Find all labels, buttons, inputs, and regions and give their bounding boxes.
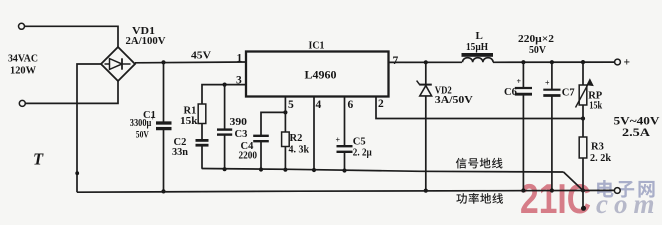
input terminal bottom bbox=[19, 100, 25, 106]
node C6 bottom junction bbox=[521, 188, 525, 192]
wire top AC input bbox=[25, 26, 119, 47]
svg-text:15k: 15k bbox=[180, 116, 198, 127]
svg-text:T: T bbox=[33, 150, 44, 169]
wire bridge output to IC pin1 bbox=[135, 61, 246, 64]
resistor R1 bbox=[198, 104, 206, 124]
node C3 bottom junction bbox=[223, 167, 227, 171]
capacitor C7 bbox=[551, 62, 553, 89]
svg-text:2. 2µ: 2. 2µ bbox=[353, 147, 372, 158]
svg-text:1: 1 bbox=[237, 53, 243, 65]
diode VD2 bbox=[425, 62, 427, 84]
inductor L bbox=[462, 53, 494, 57]
wire signal ground rail bbox=[202, 169, 564, 173]
capacitor C3 bbox=[224, 85, 226, 129]
svg-text:C3: C3 bbox=[235, 129, 248, 140]
capacitor C2 bbox=[196, 139, 209, 142]
node C4 bottom junction bbox=[259, 167, 263, 171]
wire pin6 down bbox=[344, 97, 346, 146]
node VD2 junction bbox=[424, 60, 428, 64]
node pin4 ground junction bbox=[312, 168, 316, 172]
svg-text:C5: C5 bbox=[353, 136, 366, 147]
node pin3/C3 junction bbox=[223, 83, 227, 87]
svg-text:L4960: L4960 bbox=[305, 69, 337, 81]
input terminal top bbox=[19, 23, 25, 29]
op-amp U1 regulator IC1 L4960 box bbox=[246, 52, 389, 97]
svg-text:2: 2 bbox=[378, 98, 384, 110]
svg-text:3A/50V: 3A/50V bbox=[435, 95, 473, 106]
svg-text:2A/100V: 2A/100V bbox=[126, 36, 166, 47]
wire pin2 feedback to divider bbox=[376, 97, 583, 119]
wire power ground rail bbox=[77, 190, 614, 192]
wire bridge negative to ground rail bbox=[77, 64, 101, 192]
output terminal + bbox=[615, 59, 621, 65]
potentiometer RP bbox=[582, 62, 584, 85]
svg-text:com: com bbox=[596, 189, 661, 219]
wire pin7 to inductor bbox=[389, 61, 463, 63]
node C1 top junction bbox=[161, 60, 165, 64]
svg-text:34VAC: 34VAC bbox=[8, 53, 38, 65]
svg-text:C6: C6 bbox=[504, 87, 517, 98]
svg-text:+: + bbox=[335, 136, 340, 145]
svg-text:2. 2k: 2. 2k bbox=[590, 153, 611, 164]
svg-text:L: L bbox=[476, 30, 483, 42]
svg-text:2.5A: 2.5A bbox=[622, 125, 650, 139]
wire C2 to signal ground bbox=[201, 146, 203, 169]
svg-text:R1: R1 bbox=[184, 106, 197, 117]
capacitor C6 bbox=[522, 62, 524, 87]
resistor R3 bbox=[582, 119, 584, 138]
svg-text:15k: 15k bbox=[589, 100, 602, 111]
wire R1 to C2 bbox=[201, 124, 203, 140]
svg-text:R2: R2 bbox=[290, 133, 303, 144]
svg-text:R3: R3 bbox=[591, 141, 604, 152]
svg-text:7: 7 bbox=[393, 55, 399, 67]
wire pin4 to signal ground bbox=[313, 97, 315, 171]
svg-text:390: 390 bbox=[230, 116, 248, 128]
wire pin3 to R1 bbox=[202, 85, 246, 104]
svg-text:45V: 45V bbox=[191, 50, 211, 62]
svg-text:2200: 2200 bbox=[239, 151, 258, 162]
svg-text:15µH: 15µH bbox=[466, 42, 488, 53]
node pin6 ground junction bbox=[342, 168, 346, 172]
svg-text:5: 5 bbox=[288, 99, 294, 111]
svg-text:+: + bbox=[516, 77, 521, 86]
wire bottom AC input bbox=[25, 81, 118, 103]
capacitor C5 bbox=[337, 145, 353, 147]
node feedback junction bbox=[581, 116, 585, 120]
svg-text:4. 3k: 4. 3k bbox=[289, 145, 310, 156]
node pin5 ground junction bbox=[283, 168, 287, 172]
svg-text:C7: C7 bbox=[562, 88, 575, 99]
capacitor C1 bbox=[163, 62, 165, 121]
wire inductor to + output bbox=[493, 61, 615, 63]
node C1 bottom junction bbox=[161, 189, 165, 193]
svg-text:4: 4 bbox=[316, 99, 322, 111]
node pin5/C4 junction bbox=[283, 110, 287, 114]
resistor R2 bbox=[282, 132, 290, 147]
wire signal-to-power ground diagonal bbox=[564, 172, 584, 191]
svg-text:+: + bbox=[624, 57, 631, 69]
node VD2 ground junction bbox=[424, 189, 428, 193]
stub below ground bbox=[582, 191, 584, 208]
svg-text:IC1: IC1 bbox=[309, 40, 325, 52]
node C6 top junction bbox=[521, 60, 525, 64]
svg-text:21IC: 21IC bbox=[520, 175, 591, 222]
node C7 bottom junction bbox=[550, 188, 554, 192]
svg-text:50V: 50V bbox=[529, 45, 546, 56]
wire pin5 down bbox=[284, 97, 286, 133]
diode inside bridge bbox=[105, 58, 131, 69]
svg-text:6: 6 bbox=[348, 99, 354, 111]
svg-text:120W: 120W bbox=[10, 65, 36, 77]
wire C4 to pin5 node bbox=[261, 112, 285, 135]
node RP top junction bbox=[581, 60, 585, 64]
bridge rectifier VD1 bbox=[101, 47, 135, 81]
output terminal - bbox=[614, 188, 620, 194]
wire R2 to signal ground bbox=[284, 147, 286, 170]
svg-text:50V: 50V bbox=[136, 130, 149, 140]
node C7 top junction bbox=[550, 60, 554, 64]
svg-text:220µ×2: 220µ×2 bbox=[518, 34, 554, 45]
svg-text:33n: 33n bbox=[172, 147, 188, 158]
node R3 ground junction bbox=[581, 188, 585, 192]
watermark dianziwang grey CJK bbox=[597, 180, 654, 198]
svg-text:+: + bbox=[545, 79, 550, 88]
svg-text:3300µ: 3300µ bbox=[130, 118, 152, 129]
